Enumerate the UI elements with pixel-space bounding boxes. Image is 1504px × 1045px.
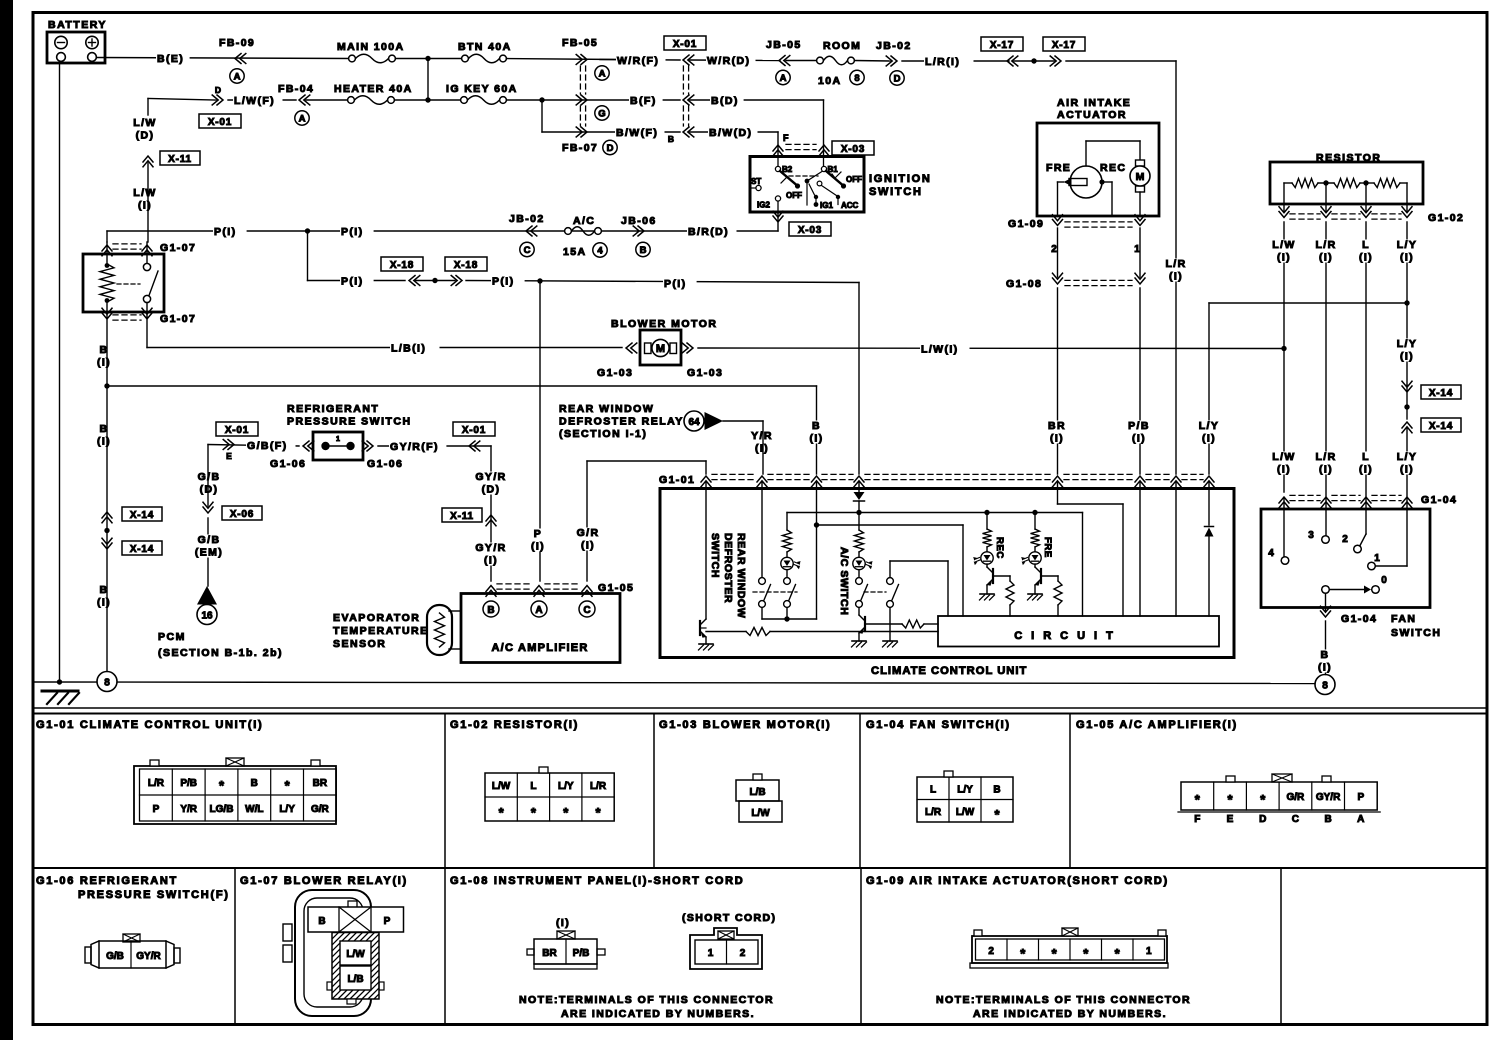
svg-text:D: D <box>894 73 901 84</box>
rec base resistor <box>993 575 1010 577</box>
svg-text:(I): (I) <box>581 540 595 552</box>
svg-text:G1-04: G1-04 <box>1341 613 1377 625</box>
junction dot P(I) <box>305 228 310 233</box>
table top rule <box>34 707 1488 709</box>
table column dividers row1 <box>444 714 446 869</box>
wire G/R(I) amplifier pin C to CCU <box>586 461 588 581</box>
wire L/Y label <box>1394 339 1421 362</box>
svg-text:G1-08: G1-08 <box>1006 278 1042 290</box>
svg-text:M: M <box>656 343 665 355</box>
svg-text:8: 8 <box>104 678 110 689</box>
svg-text:X-03: X-03 <box>798 225 822 236</box>
svg-text:L/R: L/R <box>148 778 165 789</box>
svg-text:B: B <box>1324 814 1331 825</box>
wire Y/R(I) <box>723 420 763 422</box>
ignition rotor hub <box>805 179 810 184</box>
svg-text:P(I): P(I) <box>214 226 237 238</box>
ignition arm B1-OFF <box>826 171 842 185</box>
table column dividers row2 <box>234 868 236 1025</box>
wire P/B G1-09 to G1-08 <box>1139 228 1141 277</box>
svg-text:(D): (D) <box>200 484 219 496</box>
svg-text:L/W: L/W <box>956 807 975 818</box>
wire BR(I) to climate control unit <box>1057 288 1059 474</box>
connector X-14 left <box>102 512 112 523</box>
svg-text:IGNITION: IGNITION <box>869 173 932 185</box>
connector G1-02 <box>1279 207 1289 218</box>
rec LED <box>981 552 993 564</box>
a/c indicator LED <box>853 557 865 569</box>
svg-text:PRESSURE SWITCH: PRESSURE SWITCH <box>287 416 412 428</box>
svg-text:B: B <box>640 245 647 256</box>
junction dot L/W <box>1281 346 1286 351</box>
svg-text:F: F <box>1194 814 1200 825</box>
svg-text:SWITCH: SWITCH <box>709 533 721 578</box>
junction dot B(I) <box>104 383 109 388</box>
circle D JB-02 <box>890 71 904 85</box>
svg-text:F: F <box>783 133 789 143</box>
svg-text:2: 2 <box>740 948 746 959</box>
rec indicator branch <box>984 510 989 515</box>
svg-text:X-01: X-01 <box>225 425 249 436</box>
svg-text:2: 2 <box>988 946 994 957</box>
a/c indicator resistor <box>858 513 860 531</box>
wire B(I) fan switch to ground <box>1325 621 1327 675</box>
svg-text:D: D <box>607 143 614 154</box>
ignition terminal IG1 <box>814 195 818 199</box>
svg-text:NOTE:TERMINALS OF THIS CONNECT: NOTE:TERMINALS OF THIS CONNECTOR <box>519 994 774 1006</box>
svg-text:L/R: L/R <box>1315 451 1336 463</box>
connector X-17 pair <box>981 37 1023 51</box>
svg-text:BATTERY: BATTERY <box>48 19 107 31</box>
ccu B(I) rail to circuit <box>817 524 964 526</box>
circuit box <box>938 616 1219 647</box>
svg-text:L/Y: L/Y <box>1397 338 1418 350</box>
svg-text:L/W: L/W <box>1272 451 1295 463</box>
connector G1-03 left <box>626 343 637 353</box>
amplifier pin A <box>531 601 547 617</box>
svg-text:16: 16 <box>201 611 213 622</box>
PCM arrow <box>197 586 217 605</box>
connector right of pressure switch <box>362 441 373 451</box>
wire L/R(I) down to climate control unit <box>1066 60 1176 62</box>
svg-text:L/W: L/W <box>133 117 156 129</box>
svg-text:8: 8 <box>1322 681 1328 692</box>
a/c switch dashed link <box>864 591 886 593</box>
svg-text:GY/R: GY/R <box>136 951 161 962</box>
svg-text:P/B: P/B <box>1128 420 1150 432</box>
svg-text:X-14: X-14 <box>1429 421 1453 432</box>
svg-text:(SECTION B-1b. 2b): (SECTION B-1b. 2b) <box>158 647 283 659</box>
svg-text:P/B: P/B <box>573 948 590 959</box>
table row divider <box>34 867 1488 869</box>
wire fan switch output <box>1325 594 1327 612</box>
svg-text:G1-04: G1-04 <box>1421 494 1457 506</box>
connector X-11 on GY/R <box>486 515 496 526</box>
svg-text:G/B(F): G/B(F) <box>247 440 287 452</box>
G1-02 connector pinout <box>485 773 614 821</box>
G1-07 connector pinout <box>295 890 371 1016</box>
ground bus wire <box>34 682 1316 684</box>
svg-text:BR: BR <box>542 948 557 959</box>
svg-text:B: B <box>318 916 325 927</box>
svg-text:X-11: X-11 <box>168 154 192 165</box>
ccu supply rail <box>856 510 861 515</box>
defroster switch common wire <box>762 618 817 620</box>
svg-text:L/Y: L/Y <box>558 781 574 792</box>
svg-text:B: B <box>993 785 1000 796</box>
wire G/B(D) to PCM <box>207 445 209 507</box>
wire MAIN fuse to BTN fuse <box>396 58 466 60</box>
svg-text:L: L <box>1362 239 1370 251</box>
svg-text:ACTUATOR: ACTUATOR <box>1057 109 1127 121</box>
svg-text:1: 1 <box>1146 946 1152 957</box>
svg-text:PRESSURE SWITCH(F): PRESSURE SWITCH(F) <box>78 889 230 901</box>
svg-text:SWITCH: SWITCH <box>1391 627 1441 639</box>
svg-text:FB-04: FB-04 <box>278 83 314 95</box>
svg-text:X-17: X-17 <box>1052 40 1076 51</box>
svg-text:L: L <box>930 785 936 796</box>
wire W/R(F) <box>600 59 680 62</box>
wire IG fuse to FB-05 row2 <box>507 99 681 101</box>
svg-text:G1-02 RESISTOR(I): G1-02 RESISTOR(I) <box>450 719 579 731</box>
left margin bar <box>0 0 13 1040</box>
svg-text:REC: REC <box>994 537 1005 559</box>
svg-text:(EM): (EM) <box>195 547 223 559</box>
svg-text:4: 4 <box>597 245 603 256</box>
svg-text:(SHORT CORD): (SHORT CORD) <box>682 912 776 924</box>
svg-text:G1-03: G1-03 <box>687 367 723 379</box>
wire W/R(D) <box>690 59 780 62</box>
svg-text:L/R: L/R <box>925 807 942 818</box>
svg-text:ARE INDICATED BY NUMBERS.: ARE INDICATED BY NUMBERS. <box>561 1008 755 1020</box>
ccu output base resistor <box>700 627 706 629</box>
svg-text:AIR INTAKE: AIR INTAKE <box>1057 97 1131 109</box>
svg-text:FB-05: FB-05 <box>562 37 598 49</box>
wire G/B(F) <box>208 445 299 447</box>
a/c transistor base resistor <box>865 623 902 625</box>
wire BR G1-09 to G1-08 <box>1057 228 1059 277</box>
connector X-01 column <box>664 36 706 50</box>
svg-text:REC: REC <box>1100 162 1126 174</box>
svg-text:B(D): B(D) <box>711 95 739 107</box>
svg-text:(I): (I) <box>1359 464 1373 476</box>
svg-text:(I): (I) <box>755 443 769 455</box>
resistor elements <box>1284 182 1292 184</box>
wire L/R(I) to X-17 <box>902 60 1009 62</box>
svg-text:IG2: IG2 <box>757 201 770 210</box>
svg-text:L/W(F): L/W(F) <box>234 95 275 107</box>
svg-text:P(I): P(I) <box>664 278 687 290</box>
circle 4 A/C fuse <box>593 243 607 257</box>
svg-text:MAIN 100A: MAIN 100A <box>337 41 404 53</box>
svg-text:X-01: X-01 <box>462 425 486 436</box>
ccu P/B wire <box>1139 482 1141 616</box>
circle B JB-06 <box>636 242 650 256</box>
svg-text:G1-03 BLOWER MOTOR(I): G1-03 BLOWER MOTOR(I) <box>659 719 831 731</box>
svg-text:B: B <box>100 423 109 435</box>
svg-text:FB-09: FB-09 <box>219 37 255 49</box>
circle 64 <box>684 411 704 431</box>
svg-text:(I): (I) <box>1319 252 1333 264</box>
svg-text:IG KEY 60A: IG KEY 60A <box>446 83 518 95</box>
svg-text:BR: BR <box>313 778 328 789</box>
defroster switch right arm <box>784 578 791 585</box>
svg-text:64: 64 <box>688 417 700 428</box>
svg-text:B(E): B(E) <box>157 53 184 65</box>
svg-text:L/R: L/R <box>590 781 607 792</box>
connector G1-04 bottom <box>1321 606 1331 617</box>
wire B/R(D) <box>687 227 737 237</box>
svg-text:G1-07: G1-07 <box>160 242 196 254</box>
circle 8 right <box>1315 675 1335 695</box>
ground fre <box>1028 593 1042 595</box>
svg-text:REFRIGERANT: REFRIGERANT <box>287 403 379 415</box>
ccu L/R wire <box>1175 482 1177 616</box>
svg-text:(I): (I) <box>1277 252 1291 264</box>
wire G/B(EM) <box>207 518 209 586</box>
svg-text:Y/R: Y/R <box>180 804 197 815</box>
ignition dashed link <box>789 175 818 177</box>
svg-text:4: 4 <box>1268 548 1274 559</box>
actuator wires down <box>1058 181 1064 183</box>
svg-text:B/R(D): B/R(D) <box>688 226 729 238</box>
svg-text:B/W(D): B/W(D) <box>709 127 752 139</box>
svg-text:OFF: OFF <box>846 175 862 184</box>
fre transistor <box>1034 564 1036 567</box>
connector X-01 on GY/R <box>453 422 495 436</box>
svg-text:L/R: L/R <box>1165 258 1186 270</box>
connector G1-04 <box>1279 497 1289 508</box>
arrow 64 <box>705 412 724 430</box>
wire L/B(I) relay to blower motor <box>146 317 148 348</box>
svg-text:X-18: X-18 <box>454 260 478 271</box>
svg-text:HEATER 40A: HEATER 40A <box>334 83 413 95</box>
connector X-03 below ignition switch <box>773 211 783 222</box>
svg-text:G1-07 BLOWER RELAY(I): G1-07 BLOWER RELAY(I) <box>240 875 408 887</box>
svg-text:P/B: P/B <box>180 778 197 789</box>
svg-text:A: A <box>234 71 241 82</box>
junction dot P(I) to A/C amplifier <box>537 278 542 283</box>
fre indicator branch <box>1032 510 1037 515</box>
fan switch contact 2 <box>1360 534 1366 546</box>
svg-text:G1-01 CLIMATE CONTROL UNIT(I): G1-01 CLIMATE CONTROL UNIT(I) <box>36 719 263 731</box>
svg-text:P: P <box>153 804 160 815</box>
wire L/R resistor output <box>1325 222 1327 535</box>
rec transistor <box>986 564 988 567</box>
G1-04 connector pinout <box>917 777 1013 822</box>
ccu BR wire <box>1057 482 1059 504</box>
svg-text:(I): (I) <box>97 357 111 369</box>
svg-text:1: 1 <box>1374 553 1380 564</box>
svg-text:L/W: L/W <box>133 187 156 199</box>
blower relay contact <box>146 242 148 264</box>
ignition switch box <box>750 157 864 213</box>
svg-text:M: M <box>1136 171 1145 183</box>
wire B(I) down to ground bus <box>106 386 108 671</box>
svg-text:OFF: OFF <box>786 191 802 200</box>
wire P(I) after X-18 <box>466 281 859 283</box>
svg-text:G1-09: G1-09 <box>1008 218 1044 230</box>
svg-text:ROOM: ROOM <box>823 40 861 52</box>
svg-text:L/W: L/W <box>1272 239 1295 251</box>
wire L/W(I) vertical to relay <box>147 163 149 242</box>
circle A FB-09 <box>230 69 244 83</box>
svg-text:A: A <box>299 113 306 124</box>
svg-text:REAR WINDOW: REAR WINDOW <box>735 533 747 618</box>
svg-text:(SECTION I-1): (SECTION I-1) <box>559 428 647 440</box>
svg-text:2: 2 <box>1342 534 1348 545</box>
a/c switch left arm <box>856 578 863 585</box>
connector G1-07 top <box>102 245 112 256</box>
svg-text:(I): (I) <box>484 555 498 567</box>
svg-text:G/B: G/B <box>106 951 124 962</box>
svg-text:X-14: X-14 <box>130 510 154 521</box>
svg-text:X-03: X-03 <box>841 144 865 155</box>
wire B(I) inside ccu <box>816 482 818 619</box>
ground symbol <box>42 690 78 693</box>
wire B(F) <box>629 96 663 106</box>
wire P(I) B/R(D) row <box>107 230 778 232</box>
svg-text:G1-08 INSTRUMENT PANEL(I)-SHOR: G1-08 INSTRUMENT PANEL(I)-SHORT CORD <box>450 875 744 887</box>
svg-text:L/Y: L/Y <box>279 804 295 815</box>
wire L/W(F) heater feed <box>147 99 149 116</box>
ccu output transistor <box>705 482 707 619</box>
a/c switch right arm <box>887 578 894 585</box>
fan switch contact 4 <box>1283 498 1285 556</box>
A/C amplifier box <box>461 594 620 663</box>
svg-text:L/Y: L/Y <box>1397 239 1418 251</box>
svg-text:(I): (I) <box>138 200 152 212</box>
svg-text:L: L <box>530 781 536 792</box>
svg-text:X-17: X-17 <box>990 40 1014 51</box>
svg-text:A: A <box>1357 814 1364 825</box>
svg-text:B: B <box>100 344 109 356</box>
svg-text:LG/B: LG/B <box>210 804 234 815</box>
svg-text:B(F): B(F) <box>630 95 657 107</box>
wire B(I) to climate control unit <box>107 385 817 387</box>
circle 8 ROOM fuse <box>850 70 864 84</box>
svg-text:G1-05 A/C AMPLIFIER(I): G1-05 A/C AMPLIFIER(I) <box>1076 719 1238 731</box>
svg-text:8: 8 <box>854 73 859 84</box>
connector X-01 on L/W(F) <box>199 114 241 128</box>
fan switch box <box>1261 509 1430 608</box>
circle G FB-05 <box>595 106 609 120</box>
wire P/B(I) to climate control unit <box>1139 288 1141 474</box>
svg-text:B: B <box>487 605 494 616</box>
ignition terminal IG2 <box>775 196 780 201</box>
svg-text:10A: 10A <box>818 75 841 87</box>
svg-text:L/R: L/R <box>1315 239 1336 251</box>
wire B(I) relay to junction <box>106 312 108 386</box>
svg-text:0: 0 <box>1381 575 1387 586</box>
svg-text:W/R(D): W/R(D) <box>707 55 750 67</box>
wire P(I) down into climate control unit <box>858 283 860 475</box>
svg-text:JB-06: JB-06 <box>621 215 657 227</box>
svg-text:(I): (I) <box>1202 433 1216 445</box>
svg-text:(D): (D) <box>482 484 501 496</box>
svg-text:G1-03: G1-03 <box>597 367 633 379</box>
svg-text:C: C <box>1292 814 1299 825</box>
connector G1-05 <box>486 586 496 597</box>
svg-text:(I): (I) <box>1400 464 1414 476</box>
svg-text:L/W(I): L/W(I) <box>921 344 959 356</box>
connector left of pressure switch <box>303 441 314 451</box>
svg-text:A: A <box>599 68 606 79</box>
svg-text:X-01: X-01 <box>208 117 232 128</box>
svg-text:B: B <box>812 420 821 432</box>
svg-text:L/B: L/B <box>347 974 363 985</box>
svg-text:A: A <box>535 605 542 616</box>
svg-text:G1-02: G1-02 <box>1428 212 1464 224</box>
svg-text:W/L: W/L <box>245 804 263 815</box>
svg-text:P(I): P(I) <box>341 276 364 288</box>
amplifier pin B <box>483 601 499 617</box>
svg-text:(I): (I) <box>1400 351 1414 363</box>
svg-text:GY/R: GY/R <box>1316 792 1341 803</box>
svg-text:ACC: ACC <box>841 201 859 210</box>
wire B(E) battery positive feed <box>97 58 353 59</box>
svg-text:ARE INDICATED BY NUMBERS.: ARE INDICATED BY NUMBERS. <box>973 1008 1167 1020</box>
svg-text:SWITCH: SWITCH <box>869 186 923 198</box>
circle A JB-05 <box>776 70 790 84</box>
svg-text:JB-02: JB-02 <box>509 213 545 225</box>
defroster indicator LED <box>781 557 793 569</box>
wire L/Y branch to climate control unit <box>1209 302 1407 304</box>
ground a/c transistor <box>852 640 866 642</box>
svg-text:JB-02: JB-02 <box>876 40 912 52</box>
circle 8 left <box>97 672 117 692</box>
connector G1-03 right <box>682 343 693 353</box>
circle C JB-02 <box>520 242 534 256</box>
svg-text:G1-06: G1-06 <box>367 458 403 470</box>
svg-text:L/W: L/W <box>751 808 770 819</box>
svg-text:X-01: X-01 <box>673 39 697 50</box>
svg-text:G: G <box>598 108 605 119</box>
circle A FB-04 <box>295 111 309 125</box>
svg-text:P(I): P(I) <box>492 276 515 288</box>
svg-text:P: P <box>384 916 391 927</box>
svg-text:1: 1 <box>1134 244 1140 255</box>
svg-text:X-18: X-18 <box>390 260 414 271</box>
wire GY/R(F) <box>378 445 491 447</box>
svg-text:(I): (I) <box>556 917 570 929</box>
svg-text:C: C <box>583 605 590 616</box>
svg-text:(I): (I) <box>1319 464 1333 476</box>
ignition arm B2-OFF <box>780 171 796 185</box>
svg-text:G1-04 FAN SWITCH(I): G1-04 FAN SWITCH(I) <box>866 719 1011 731</box>
svg-text:REAR WINDOW: REAR WINDOW <box>559 403 654 415</box>
connector X-11 on L/W <box>143 156 153 167</box>
svg-text:3: 3 <box>1308 530 1314 541</box>
svg-text:B: B <box>1321 649 1330 661</box>
ccu diode on P(I) <box>858 482 860 492</box>
actuator motor M <box>1136 160 1145 166</box>
svg-text:GY/R(F): GY/R(F) <box>390 441 439 453</box>
svg-text:G1-06: G1-06 <box>270 458 306 470</box>
svg-text:G1-09 AIR INTAKE ACTUATOR(SHOR: G1-09 AIR INTAKE ACTUATOR(SHORT CORD) <box>866 875 1169 887</box>
svg-text:L/B: L/B <box>749 787 765 798</box>
svg-text:A/C: A/C <box>573 215 595 227</box>
wire L/Y resistor output <box>1406 222 1408 385</box>
svg-text:B: B <box>100 584 109 596</box>
ground a/c right arm <box>883 640 897 642</box>
wire P(I) branch to X-18 row <box>307 231 309 281</box>
ground ccu output transistor <box>699 643 713 645</box>
svg-text:(I): (I) <box>97 597 111 609</box>
ccu L/Y wire with diode <box>1208 482 1210 525</box>
svg-text:(I): (I) <box>1318 662 1332 674</box>
connector G1-07 bottom <box>102 308 112 319</box>
